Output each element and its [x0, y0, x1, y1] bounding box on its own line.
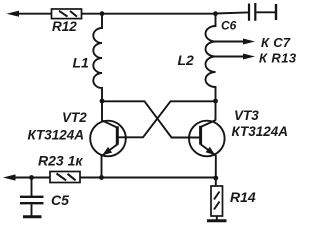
junction node VT3 emitter / R14: [213, 176, 218, 181]
wire R14 bottom: [216, 216, 218, 220]
junction node VT2 emitter: [99, 175, 104, 180]
svg-text:VT2: VT2: [62, 110, 87, 125]
wire VT2 emitter vertical: [101, 155, 103, 178]
capacitor C5: [20, 178, 44, 216]
svg-text:L1: L1: [73, 55, 90, 71]
svg-text:КТ3124А: КТ3124А: [232, 124, 289, 139]
wire R14 top: [215, 178, 217, 186]
wire after C6: [256, 11, 275, 13]
capacitor C6: [249, 3, 255, 21]
wire tap to R13 with arrow: [216, 54, 256, 60]
junction node at L2 top: [213, 11, 218, 16]
wire top-left horizontal: [14, 13, 52, 15]
svg-text:К С7: К С7: [261, 35, 291, 50]
svg-text:R23 1к: R23 1к: [38, 153, 83, 169]
transistor VT3: [189, 120, 225, 156]
wire cross-coupling: VT3 collector to VT2 base: [117, 101, 216, 137]
wire cross-coupling: VT2 collector to VT3 base: [102, 101, 201, 137]
junction node VT2 collector: [100, 99, 105, 104]
inductor L2: [206, 14, 216, 101]
ground for C5: [23, 215, 42, 218]
wire VT3 emitter vertical: [215, 155, 217, 178]
junction node C5 tap: [29, 175, 34, 180]
svg-text:L2: L2: [178, 52, 195, 68]
junction node VT3 collector: [213, 99, 218, 104]
terminal bar right end: [275, 4, 277, 20]
resistor R14: [211, 186, 223, 216]
wire VT2 collector vertical: [101, 101, 103, 121]
svg-text:R14: R14: [230, 189, 256, 205]
transistor VT2: [90, 120, 126, 156]
arrow terminal top-left: [7, 11, 20, 17]
wire top middle: [82, 13, 216, 15]
wire tap to C7 with arrow: [216, 39, 256, 45]
wire VT3 collector vertical: [215, 101, 217, 121]
wire top-right to capacitor: [216, 12, 249, 13]
wire bottom middle: [80, 177, 216, 179]
svg-text:С5: С5: [51, 192, 69, 208]
svg-text:VТ3: VТ3: [234, 108, 259, 123]
inductor L1: [93, 16, 102, 101]
resistor R12: [52, 9, 82, 19]
svg-text:R12: R12: [52, 19, 77, 34]
resistor R23: [50, 172, 80, 183]
ground for R14: [207, 219, 227, 222]
junction node at R12 / L1: [100, 11, 105, 16]
svg-text:С6: С6: [221, 19, 237, 33]
svg-text:КТ3124А: КТ3124А: [28, 128, 85, 143]
svg-text:К R13: К R13: [259, 51, 297, 66]
arrow terminal bottom-left: [3, 174, 16, 180]
wire bottom-left horizontal: [11, 177, 50, 179]
